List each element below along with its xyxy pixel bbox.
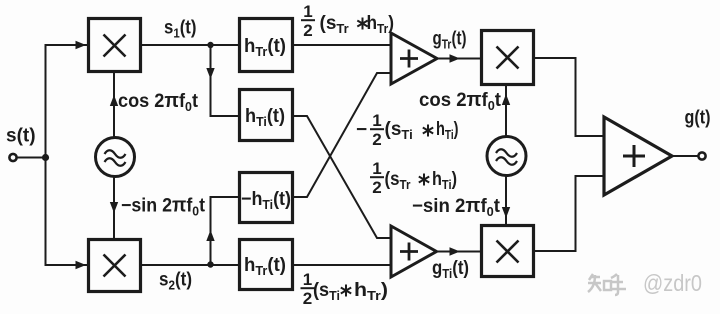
svg-text:@zdr0: @zdr0 [643, 270, 702, 296]
svg-text:2: 2 [303, 289, 312, 308]
svg-text:hTr(t): hTr(t) [244, 36, 286, 59]
svg-text:hTi): hTi) [432, 169, 457, 192]
wire input to junction [17, 157, 46, 159]
wire M2 output s2 [142, 264, 239, 266]
svg-text:2: 2 [372, 178, 381, 197]
svg-text:−sin 2πf0t: −sin 2πf0t [121, 195, 206, 219]
convolution star mid1 [423, 125, 433, 137]
svg-text:hTi): hTi) [436, 119, 459, 142]
node input junction [42, 154, 49, 161]
svg-text:gTr(t): gTr(t) [433, 29, 467, 52]
svg-text:s1(t): s1(t) [164, 18, 197, 41]
filter HTR1 [240, 19, 293, 72]
wire OSC1 to M2 [113, 177, 115, 240]
wire arrow into M2 [76, 261, 87, 269]
svg-text:2: 2 [303, 21, 312, 40]
convolution star bottom [341, 285, 351, 297]
multiplier M3 [482, 31, 534, 85]
svg-text:s2(t): s2(t) [159, 270, 192, 293]
wire M1 output s1 [142, 44, 239, 46]
wire HTI2 cross up to A1 [293, 73, 391, 197]
oscillator OSC2 [487, 137, 526, 176]
adder A1 [391, 33, 437, 84]
label 1/2 (sTr * hTi) [372, 159, 457, 197]
wire OSC2 to M3 [505, 86, 507, 137]
node s2 junction [207, 261, 213, 267]
convolution star mid2 [419, 174, 429, 186]
svg-text:s(t): s(t) [6, 126, 36, 147]
oscillator OSC1 [96, 138, 135, 177]
svg-text:hTr): hTr) [354, 280, 388, 303]
wire vertical splitter [46, 45, 88, 265]
convolution star top [357, 18, 367, 30]
svg-text:cos 2πf0t: cos 2πf0t [118, 90, 199, 114]
svg-text:−hTi(t): −hTi(t) [241, 189, 291, 212]
svg-text:hTr): hTr) [367, 13, 395, 36]
filter HTR2 [240, 240, 293, 290]
wire A2 to M4 with arrow [437, 251, 482, 253]
svg-text:1: 1 [303, 2, 312, 21]
svg-text:−: − [356, 120, 367, 141]
multiplier M1 [89, 19, 141, 72]
watermark zhihu @zdr0 [588, 274, 626, 295]
label 1/2 (sTr * hTr) top [303, 2, 394, 40]
filter HTI2 [240, 173, 293, 223]
multiplier M4 [482, 226, 534, 277]
svg-text:(sTr: (sTr [385, 169, 411, 192]
wire A1 to M3 with arrow [437, 58, 481, 60]
adder A3 final [604, 117, 672, 195]
svg-text:1: 1 [372, 111, 381, 130]
svg-text:g(t): g(t) [685, 108, 711, 129]
wire M4 to final adder [534, 176, 605, 251]
wire HTI1 cross down to A2 [293, 116, 391, 238]
svg-text:1: 1 [303, 270, 312, 289]
svg-text:−sin 2πf0t: −sin 2πf0t [412, 195, 501, 219]
svg-text:2: 2 [372, 130, 381, 149]
wire A3 to output [672, 155, 699, 157]
svg-text:(sTr: (sTr [320, 13, 349, 36]
svg-text:(sTi: (sTi [313, 280, 340, 303]
wire s1 down to HTI1 [211, 45, 239, 116]
node s1 junction [207, 42, 213, 48]
label 1/2 (sTi * hTr) bottom [303, 270, 388, 308]
wire HTR2 to adder A2 [293, 264, 391, 266]
svg-text:gTi(t): gTi(t) [432, 258, 469, 281]
label -1/2 (sTi * hTi) [356, 111, 459, 149]
filter HTI1 [240, 90, 293, 141]
output terminal g(t) [698, 152, 705, 159]
svg-text:hTi(t): hTi(t) [245, 106, 285, 129]
wire OSC2 to M4 [505, 176, 507, 227]
wire arrow into M1 [76, 41, 87, 49]
svg-text:cos 2πf0t: cos 2πf0t [419, 89, 502, 113]
svg-text:1: 1 [372, 159, 381, 178]
svg-text:(sTi: (sTi [385, 119, 413, 142]
wire s2 up to HTI2 [211, 197, 239, 265]
wire OSC1 to M1 [113, 72, 115, 138]
svg-text:hTr(t): hTr(t) [244, 255, 286, 278]
multiplier M2 [89, 240, 141, 292]
wire M3 to final adder [534, 58, 605, 136]
adder A2 [391, 226, 437, 277]
input terminal s(t) [9, 154, 16, 161]
wire HTR1 to adder A1 [293, 44, 391, 46]
